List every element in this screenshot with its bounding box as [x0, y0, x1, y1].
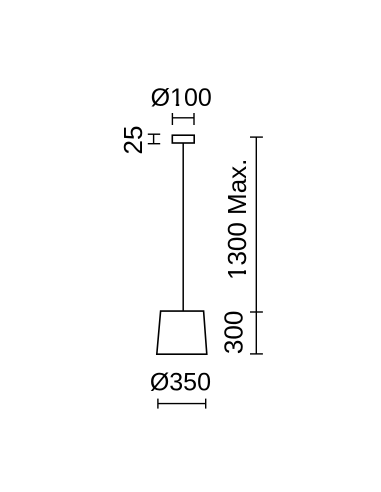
dimension line Ø350	[158, 399, 206, 409]
suspension wire	[182, 143, 184, 311]
svg-text:1300 Max.: 1300 Max.	[222, 159, 252, 280]
svg-text:Ø100: Ø100	[151, 84, 212, 112]
svg-text:25: 25	[118, 126, 148, 155]
dimension I-beam 25 (canopy height)	[148, 134, 160, 144]
lamp shade	[157, 311, 207, 354]
svg-text:300: 300	[218, 311, 248, 354]
canopy (ceiling rose)	[172, 135, 194, 143]
dimension line Ø100	[172, 113, 194, 125]
mask: remove foot serif of digit 1 in Ø100	[171, 104, 176, 107]
vertical dimension line (right)	[250, 137, 263, 354]
svg-text:Ø350: Ø350	[150, 369, 211, 397]
mask: remove foot serif of digit 1 in 1300 Max. (rotated)	[244, 266, 247, 271]
